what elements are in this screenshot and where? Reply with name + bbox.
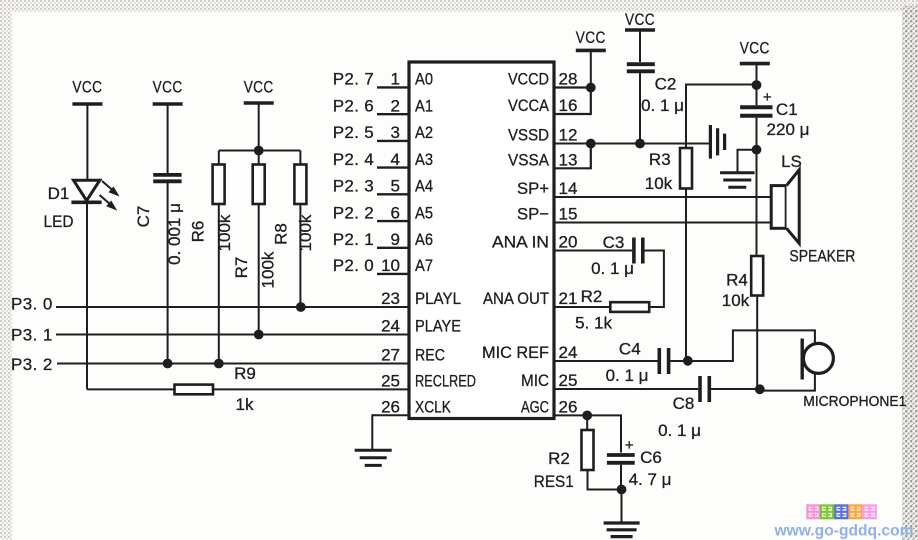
resistor R7 xyxy=(253,165,265,205)
svg-text:20: 20 xyxy=(559,233,578,252)
svg-text:SP−: SP− xyxy=(517,205,549,224)
svg-text:R9: R9 xyxy=(234,364,256,383)
polarity + xyxy=(763,89,772,106)
wire xyxy=(586,415,588,430)
svg-text:VSSD: VSSD xyxy=(508,126,549,145)
svg-text:26: 26 xyxy=(381,398,400,417)
svg-text:14: 14 xyxy=(559,179,578,198)
svg-text:4. 7 μ: 4. 7 μ xyxy=(629,470,672,489)
capacitor C6 (electrolytic) xyxy=(607,455,635,463)
power VCC (pin28) xyxy=(576,28,606,50)
resistor R9 xyxy=(175,385,214,395)
pin 24 number xyxy=(381,317,400,336)
pin 14 number xyxy=(559,179,578,198)
wire xyxy=(299,204,301,307)
pin label A1 xyxy=(415,96,433,115)
wire pin16 xyxy=(554,88,591,115)
svg-text:12: 12 xyxy=(559,126,578,145)
pin label REC xyxy=(415,346,445,365)
svg-text:C4: C4 xyxy=(619,340,641,359)
label R2 xyxy=(548,449,570,468)
svg-text:10: 10 xyxy=(381,256,400,275)
wire xyxy=(711,388,760,390)
label R7 xyxy=(232,257,251,279)
pin label RECLRED xyxy=(415,372,476,391)
pin label VCCA xyxy=(508,96,550,115)
svg-text:P2. 2: P2. 2 xyxy=(333,203,374,222)
wire xyxy=(686,85,757,149)
wire xyxy=(167,183,169,364)
pin label MIC REF xyxy=(482,343,549,362)
svg-text:C8: C8 xyxy=(673,394,695,413)
wire pin 10 stub xyxy=(377,273,409,275)
label R8 xyxy=(271,223,290,245)
node VCC-R6R7R8 xyxy=(254,146,264,156)
pin 15 number xyxy=(559,205,578,224)
value 5.1k xyxy=(575,314,612,333)
svg-text:4: 4 xyxy=(391,150,400,169)
label R9 xyxy=(234,364,256,383)
pin 26 number xyxy=(559,398,578,417)
value 10k xyxy=(722,291,750,310)
svg-text:ANA IN: ANA IN xyxy=(492,233,549,252)
wire pin13 xyxy=(554,144,591,169)
svg-text:P2. 5: P2. 5 xyxy=(333,123,374,142)
node P2. 6 xyxy=(333,96,374,115)
svg-text:100k: 100k xyxy=(259,251,278,288)
wire pin 6 stub xyxy=(377,220,409,222)
wire pin25 MIC xyxy=(554,388,698,390)
svg-text:24: 24 xyxy=(381,317,400,336)
wire xyxy=(756,118,758,150)
svg-text:VCC: VCC xyxy=(244,78,274,97)
pin 1 number xyxy=(391,70,400,89)
label C3 xyxy=(603,233,625,252)
pin label A0 xyxy=(415,70,433,89)
wire xyxy=(756,64,758,85)
watermark logo text xyxy=(808,506,876,519)
wire xyxy=(218,151,220,165)
svg-text:P2. 0: P2. 0 xyxy=(333,256,374,275)
svg-text:0. 1 μ: 0. 1 μ xyxy=(658,421,701,440)
svg-text:RES1: RES1 xyxy=(534,472,574,491)
pin 25 number xyxy=(559,371,578,390)
label LED xyxy=(44,212,74,231)
LED D1 xyxy=(71,180,119,210)
svg-text:R7: R7 xyxy=(232,257,251,279)
svg-text:25: 25 xyxy=(559,371,578,390)
svg-text:VCC: VCC xyxy=(153,78,183,97)
svg-text:C1: C1 xyxy=(776,100,798,119)
node P3.0 xyxy=(11,294,53,313)
watermark url xyxy=(774,523,914,540)
power VCC (LED branch) xyxy=(72,78,102,104)
power VCC (C2) xyxy=(625,10,655,30)
wire xyxy=(86,104,88,179)
wire pin 3 stub xyxy=(377,140,409,142)
svg-text:13: 13 xyxy=(559,151,578,170)
svg-text:5: 5 xyxy=(391,177,400,196)
power VCC (C7 branch) xyxy=(153,78,183,104)
svg-text:SP+: SP+ xyxy=(517,179,549,198)
value 0.1u xyxy=(591,259,634,278)
svg-text:A4: A4 xyxy=(415,177,433,196)
label D1 xyxy=(48,184,70,203)
capacitor C3 xyxy=(634,238,643,264)
svg-text:MICROPHONE1: MICROPHONE1 xyxy=(803,393,906,410)
svg-text:10k: 10k xyxy=(645,174,673,193)
value 4.7u xyxy=(629,470,672,489)
svg-text:R3: R3 xyxy=(649,150,671,169)
wire SP+ (pin14) xyxy=(554,196,771,198)
junction VCC-C1 xyxy=(752,80,762,90)
wire SP- (pin15) xyxy=(554,222,771,224)
svg-text:C2: C2 xyxy=(655,75,677,94)
svg-text:+: + xyxy=(763,89,772,106)
label R6 xyxy=(189,221,208,243)
svg-text:A3: A3 xyxy=(415,150,433,169)
value 100k xyxy=(215,214,234,251)
label MICROPHONE1 xyxy=(803,393,906,410)
node P2. 2 xyxy=(333,203,374,222)
pin label XCLK xyxy=(415,398,452,417)
pin label AGC xyxy=(521,398,549,417)
resistor R2 (RES1) xyxy=(582,430,594,470)
value 100k xyxy=(296,214,315,251)
IC U1 (voice chip) xyxy=(409,62,554,419)
pin label A6 xyxy=(415,230,433,249)
svg-text:R2: R2 xyxy=(581,287,603,306)
pin 10 number xyxy=(381,256,400,275)
value 1k xyxy=(236,395,254,414)
wire xyxy=(258,103,260,151)
pin label ANA IN xyxy=(492,233,549,252)
svg-text:C7: C7 xyxy=(134,206,153,228)
svg-text:VCC: VCC xyxy=(625,10,655,29)
pin label VCCD xyxy=(508,70,549,89)
svg-text:0. 1 μ: 0. 1 μ xyxy=(606,366,649,385)
pin 25 number xyxy=(381,372,400,391)
resistor R4 xyxy=(751,256,763,296)
ground (C1) xyxy=(720,173,755,187)
pin 9 number xyxy=(391,230,400,249)
wire xyxy=(219,150,301,152)
wire xyxy=(756,296,758,390)
svg-text:VCCD: VCCD xyxy=(508,70,549,89)
svg-text:25: 25 xyxy=(381,372,400,391)
node P2. 3 xyxy=(333,177,374,196)
junction AGC xyxy=(582,411,592,421)
ground (XCLK) xyxy=(355,450,392,465)
resistor R2 (5.1k) xyxy=(610,302,649,312)
svg-text:ANA OUT: ANA OUT xyxy=(483,289,549,308)
svg-text:MIC: MIC xyxy=(521,371,549,390)
resistor R3 xyxy=(680,148,692,189)
svg-text:SPEAKER: SPEAKER xyxy=(789,247,855,266)
label SPEAKER xyxy=(789,247,855,266)
wire xyxy=(213,388,409,390)
wire xyxy=(756,150,758,256)
node P3.2 xyxy=(11,355,53,374)
label C4 xyxy=(619,340,641,359)
svg-text:REC: REC xyxy=(415,346,445,365)
svg-text:1: 1 xyxy=(391,70,400,89)
label C1 xyxy=(776,100,798,119)
label C8 xyxy=(673,394,695,413)
svg-text:A7: A7 xyxy=(415,256,433,275)
pin label A4 xyxy=(415,177,433,196)
wire pin28 xyxy=(554,86,591,88)
svg-text:10k: 10k xyxy=(722,291,750,310)
svg-text:220 μ: 220 μ xyxy=(767,120,810,139)
svg-text:PLAYE: PLAYE xyxy=(415,317,461,336)
wire xyxy=(756,85,758,105)
node P2. 7 xyxy=(333,70,374,89)
wire xyxy=(86,202,88,389)
pin 12 number xyxy=(559,126,578,145)
svg-text:RECLRED: RECLRED xyxy=(415,372,476,391)
pin label A7 xyxy=(415,256,433,275)
value 0.1u xyxy=(641,96,684,115)
wire xyxy=(587,415,621,452)
svg-text:PLAYL: PLAYL xyxy=(415,289,461,308)
pin label A3 xyxy=(415,150,433,169)
pin 3 number xyxy=(391,123,400,142)
pin label PLAYE xyxy=(415,317,461,336)
wire xyxy=(57,363,409,365)
wire xyxy=(588,470,622,490)
svg-text:VCCA: VCCA xyxy=(508,96,550,115)
pin 6 number xyxy=(391,203,400,222)
svg-text:P2. 7: P2. 7 xyxy=(333,70,374,89)
value 10k xyxy=(645,174,673,193)
microphone MICROPHONE1 xyxy=(802,339,833,380)
svg-text:26: 26 xyxy=(559,398,578,417)
svg-text:VCC: VCC xyxy=(740,39,770,58)
svg-text:+: + xyxy=(625,437,634,454)
svg-text:C6: C6 xyxy=(640,448,662,467)
resistor R6 xyxy=(213,165,225,205)
wire xyxy=(639,30,641,62)
wire xyxy=(760,374,815,391)
svg-text:A5: A5 xyxy=(415,203,433,222)
wire xyxy=(87,388,175,390)
speaker LS xyxy=(771,170,799,244)
pin label MIC xyxy=(521,371,549,390)
svg-text:P2. 1: P2. 1 xyxy=(333,230,374,249)
pin 21 number xyxy=(559,289,578,308)
wire xyxy=(218,204,220,364)
wire xyxy=(620,465,622,490)
svg-text:23: 23 xyxy=(381,289,400,308)
junction R4-C8-mic xyxy=(755,384,765,394)
svg-text:A1: A1 xyxy=(415,96,433,115)
pin 27 number xyxy=(381,346,400,365)
svg-text:P3. 1: P3. 1 xyxy=(11,325,53,344)
node P2. 1 xyxy=(333,230,374,249)
node P2. 0 xyxy=(333,256,374,275)
pin 13 number xyxy=(559,151,578,170)
pin 28 number xyxy=(559,70,578,89)
junction C6-R2 xyxy=(617,485,627,495)
junction C2-rail xyxy=(635,139,645,149)
label R3 xyxy=(649,150,671,169)
junction R6-P3.2 xyxy=(214,359,224,369)
svg-text:www.go-gddq.com: www.go-gddq.com xyxy=(774,523,914,540)
wire pin 4 stub xyxy=(377,166,409,168)
svg-text:1k: 1k xyxy=(236,395,254,414)
wire xyxy=(56,306,409,308)
wire pin 1 stub xyxy=(377,86,409,88)
node P2. 4 xyxy=(333,150,374,169)
wire xyxy=(670,360,688,362)
ground (VSS rail, sideways) xyxy=(710,125,724,159)
wire pin20 xyxy=(554,250,632,252)
capacitor C1 (electrolytic) xyxy=(740,107,772,116)
wire xyxy=(639,73,641,144)
value 0.001u xyxy=(165,203,184,265)
svg-text:16: 16 xyxy=(559,96,578,115)
pin 5 number xyxy=(391,177,400,196)
capacitor C7 xyxy=(153,175,181,181)
svg-text:3: 3 xyxy=(391,123,400,142)
value 100k xyxy=(259,251,278,288)
svg-text:VCC: VCC xyxy=(576,28,606,47)
svg-text:C3: C3 xyxy=(603,233,625,252)
junction pin13-rail xyxy=(586,139,596,149)
svg-text:9: 9 xyxy=(391,230,400,249)
pin label A5 xyxy=(415,203,433,222)
wire xyxy=(645,251,664,308)
pin label ANA OUT xyxy=(483,289,549,308)
junction C1-bottom xyxy=(752,145,762,155)
wire pin26 AGC xyxy=(554,414,587,416)
wire xyxy=(621,490,623,522)
pin 4 number xyxy=(391,150,400,169)
wire VSS rail (pins 12/13) xyxy=(554,143,710,145)
svg-text:28: 28 xyxy=(559,70,578,89)
pin 2 number xyxy=(391,96,400,115)
svg-text:27: 27 xyxy=(381,346,400,365)
wire xyxy=(372,415,409,449)
svg-text:A6: A6 xyxy=(415,230,433,249)
pin 16 number xyxy=(559,96,578,115)
pin label A2 xyxy=(415,123,433,142)
svg-text:R2: R2 xyxy=(548,449,570,468)
svg-text:LED: LED xyxy=(44,212,74,231)
svg-text:15: 15 xyxy=(559,205,578,224)
power VCC (resistor network) xyxy=(244,78,274,103)
svg-text:0. 1 μ: 0. 1 μ xyxy=(591,259,634,278)
wire pin 2 stub xyxy=(377,113,409,115)
pin label PLAYL xyxy=(415,289,461,308)
pin label SP&#8722; xyxy=(517,205,549,224)
wire xyxy=(590,50,592,87)
svg-text:AGC: AGC xyxy=(521,398,549,417)
svg-text:MIC REF: MIC REF xyxy=(482,343,549,362)
power VCC (C1) xyxy=(740,39,770,64)
svg-text:P3. 0: P3. 0 xyxy=(11,294,53,313)
svg-text:P2. 4: P2. 4 xyxy=(333,150,374,169)
capacitor C2 xyxy=(627,64,655,71)
svg-text:R8: R8 xyxy=(271,223,290,245)
wire xyxy=(738,150,757,172)
junction R8-P3.0 xyxy=(296,302,306,312)
wire pin21 xyxy=(554,306,610,308)
capacitor C8 xyxy=(700,376,709,402)
resistor R8 xyxy=(294,165,306,205)
pin 20 number xyxy=(559,233,578,252)
junction C7-P3.2 xyxy=(163,359,173,369)
svg-text:VCC: VCC xyxy=(72,78,102,97)
node P2. 5 xyxy=(333,123,374,142)
label RES1 xyxy=(534,472,574,491)
label R2 xyxy=(581,287,603,306)
ground (C6) xyxy=(604,523,640,537)
svg-text:2: 2 xyxy=(391,96,400,115)
svg-text:LS: LS xyxy=(781,152,802,171)
wire xyxy=(56,334,409,336)
label C2 xyxy=(655,75,677,94)
junction VCC-pin28 xyxy=(586,83,596,93)
pin 23 number xyxy=(381,289,400,308)
capacitor C4 xyxy=(659,348,668,374)
pin label VSSA xyxy=(508,151,550,170)
svg-text:0. 1 μ: 0. 1 μ xyxy=(641,96,684,115)
svg-text:D1: D1 xyxy=(48,184,70,203)
svg-text:6: 6 xyxy=(391,203,400,222)
pin label VSSD xyxy=(508,126,549,145)
label R4 xyxy=(726,271,748,290)
wire pin 9 stub xyxy=(377,247,409,249)
label LS xyxy=(781,152,802,171)
value 0.1u xyxy=(606,366,649,385)
svg-text:A2: A2 xyxy=(415,123,433,142)
polarity + xyxy=(625,437,634,454)
wire xyxy=(258,204,260,335)
svg-text:VSSA: VSSA xyxy=(508,151,550,170)
pin 26 number xyxy=(381,398,400,417)
svg-text:P2. 6: P2. 6 xyxy=(333,96,374,115)
node P3.1 xyxy=(11,325,53,344)
svg-text:100k: 100k xyxy=(296,214,315,251)
svg-text:R6: R6 xyxy=(189,221,208,243)
label C6 xyxy=(640,448,662,467)
wire pin 5 stub xyxy=(377,193,409,195)
value 0.1u xyxy=(658,421,701,440)
svg-text:21: 21 xyxy=(559,289,578,308)
svg-text:A0: A0 xyxy=(415,70,433,89)
wire xyxy=(167,104,169,173)
pin 24 number xyxy=(559,343,578,362)
wire xyxy=(299,151,301,165)
svg-text:5. 1k: 5. 1k xyxy=(575,314,612,333)
svg-text:P2. 3: P2. 3 xyxy=(333,177,374,196)
pin label SP+ xyxy=(517,179,549,198)
wire pin24 MIC REF xyxy=(554,360,658,362)
label C7 xyxy=(134,206,153,228)
svg-text:P3. 2: P3. 2 xyxy=(11,355,53,374)
svg-text:R4: R4 xyxy=(726,271,748,290)
value 220u xyxy=(767,120,810,139)
wire xyxy=(688,330,815,361)
wire xyxy=(685,189,687,361)
svg-text:XCLK: XCLK xyxy=(415,398,452,417)
svg-text:24: 24 xyxy=(559,343,578,362)
junction R7-P3.1 xyxy=(254,330,264,340)
junction R3-C4 xyxy=(683,356,693,366)
wire xyxy=(258,151,260,165)
